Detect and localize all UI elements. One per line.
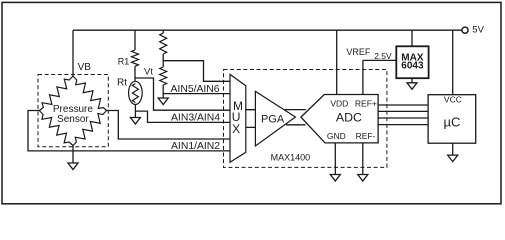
wire top 5V rail — [73, 29, 462, 31]
ground below uc — [448, 155, 458, 162]
svg-text:6043: 6043 — [401, 60, 424, 71]
wire mux to pga pair — [246, 110, 256, 128]
svg-text:Sensor: Sensor — [57, 114, 89, 125]
resistor divider upper — [160, 33, 167, 54]
MAX1400 dashed box — [224, 70, 387, 168]
mux U1a — [230, 74, 246, 162]
wire GND down — [334, 143, 336, 175]
pressure sensor dashed box — [38, 75, 108, 147]
svg-text:5V: 5V — [472, 25, 484, 36]
wire divider bottom to ground — [162, 85, 164, 98]
ground below bridge — [68, 163, 78, 170]
wire AIN4 from Rt bottom node — [135, 111, 230, 122]
wire VREF to MAX6043 — [363, 59, 396, 61]
svg-text:Vt: Vt — [144, 66, 153, 77]
wire VCC from rail — [452, 30, 454, 95]
wire divider mid node — [162, 54, 164, 67]
svg-text:MAX1400: MAX1400 — [271, 152, 311, 162]
svg-text:AIN3/AIN4: AIN3/AIN4 — [171, 112, 220, 123]
resistor bridge bottom-left — [39, 111, 73, 146]
wire AIN2 from bridge left node — [28, 111, 230, 151]
resistor bridge top-right — [73, 76, 107, 111]
svg-text:GND: GND — [327, 131, 346, 141]
svg-text:X: X — [232, 122, 240, 136]
svg-text:PGA: PGA — [261, 114, 285, 126]
wire AIN6 from divider bottom node — [163, 93, 230, 95]
wire bridge bottom to ground — [72, 146, 74, 164]
resistor bridge top-left — [39, 76, 73, 111]
op-amp PGA — [255, 91, 295, 146]
thermistor Rt — [129, 81, 143, 104]
svg-text:VB: VB — [78, 62, 92, 73]
wire VB from rail to bridge — [72, 30, 74, 77]
wire R1 to Vt node — [134, 66, 136, 81]
wire MAX6043 from rail — [411, 30, 413, 46]
wire Rt bottom to ground — [134, 105, 136, 118]
resistor divider lower — [160, 67, 167, 85]
microcontroller U3 box — [428, 95, 476, 144]
resistor bridge bottom-right — [73, 111, 107, 146]
svg-text:µC: µC — [443, 114, 460, 129]
wire MAX6043 ground — [411, 78, 413, 83]
svg-text:VDD: VDD — [330, 98, 348, 108]
svg-text:R1: R1 — [118, 56, 130, 66]
wire uc ground — [452, 143, 454, 155]
wire AIN3 from Vt node — [135, 78, 230, 110]
ground below divider — [158, 98, 168, 105]
wire pga to adc pair — [285, 110, 306, 125]
ADC block — [301, 95, 378, 143]
resistor R1 — [132, 50, 139, 66]
ground below REF- — [358, 175, 368, 182]
svg-text:AIN1/AIN2: AIN1/AIN2 — [171, 141, 220, 152]
wire REF- down — [362, 143, 364, 175]
voltage reference MAX6043 box — [396, 46, 428, 78]
wire R1 branch from rail — [134, 30, 136, 50]
svg-text:ADC: ADC — [336, 111, 362, 125]
wire VDD from rail — [336, 30, 338, 94]
svg-text:REF+: REF+ — [355, 98, 377, 108]
wire REF+ from VREF — [362, 60, 364, 94]
svg-text:AIN5/AIN6: AIN5/AIN6 — [171, 84, 220, 95]
svg-text:VCC: VCC — [444, 94, 462, 104]
ground below Rt — [130, 118, 140, 125]
terminal 5V — [462, 27, 468, 33]
svg-text:Rt: Rt — [117, 77, 127, 88]
svg-text:REF-: REF- — [356, 131, 376, 141]
wire divider branch from rail — [162, 30, 164, 33]
ground below MAX6043 — [407, 83, 417, 90]
svg-text:2.5V: 2.5V — [374, 51, 392, 61]
wire AIN1 from bridge right node — [107, 111, 230, 140]
svg-text:VREF: VREF — [346, 47, 371, 57]
ground below GND — [330, 175, 340, 182]
wire adc to uc bus — [378, 105, 428, 125]
wire AIN5 from divider mid node — [163, 61, 230, 82]
